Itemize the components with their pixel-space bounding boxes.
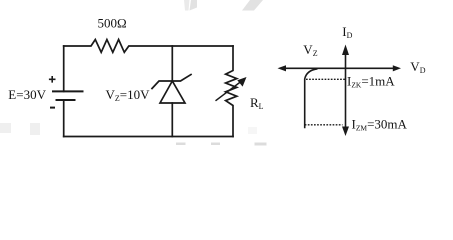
svg-text:IZM=30mA: IZM=30mA — [352, 116, 408, 132]
svg-text:VZ: VZ — [303, 42, 317, 58]
svg-text:500Ω: 500Ω — [98, 16, 127, 31]
svg-text:ID: ID — [342, 24, 352, 40]
svg-text:E=30V: E=30V — [8, 87, 46, 102]
svg-text:VZ=10V: VZ=10V — [106, 87, 151, 103]
svg-text:IZK=1mA: IZK=1mA — [347, 74, 395, 90]
svg-text:RL: RL — [250, 95, 264, 111]
svg-text:VD: VD — [410, 59, 425, 75]
